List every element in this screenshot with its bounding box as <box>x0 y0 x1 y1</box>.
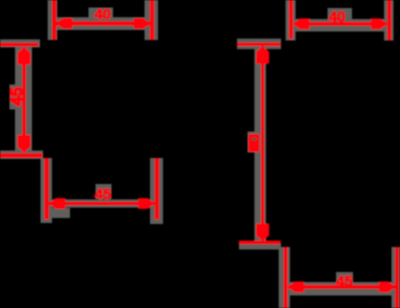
middle dim upper extension line <box>237 43 281 46</box>
ghost of label 45 bottom-right <box>336 272 353 289</box>
left dim upper extension line <box>0 43 38 47</box>
svg-text:45: 45 <box>95 186 112 203</box>
ghost of label 40 top-left <box>89 8 114 22</box>
top-right dimension line <box>294 22 387 26</box>
ghost of bottom-left dimension line <box>49 199 155 207</box>
middle dim lower extension line <box>239 241 281 245</box>
top-left left arrowhead <box>56 18 73 29</box>
ghost of left dimension line <box>15 42 32 156</box>
bottom-left dim extension line 2 <box>155 158 159 220</box>
top-left dim extension line 2 <box>150 0 154 40</box>
middle dimension line <box>261 46 264 241</box>
bottom-left right arrowhead <box>138 198 155 209</box>
ghost of bottom-right dimension line <box>288 282 397 296</box>
ghost of label 80 middle <box>248 132 260 153</box>
bottom-right right arrowhead <box>379 282 396 293</box>
label 80 zero counter hole <box>252 137 257 140</box>
top-right left arrowhead <box>293 18 310 29</box>
ghost of middle dim lower extension line <box>239 244 281 250</box>
bottom-left left arrowhead <box>49 198 66 209</box>
top-left dim extension line 1 <box>52 0 56 40</box>
ghost of top-right extension line 2 <box>384 0 394 41</box>
ghost of top-right dimension line <box>286 19 393 32</box>
bottom-right dim extension line 1 <box>284 247 288 308</box>
svg-text:40: 40 <box>94 6 111 23</box>
bottom-left dimension line <box>49 202 155 206</box>
top-right dim extension line 2 <box>387 0 391 40</box>
left dimension line <box>22 47 26 152</box>
top-left right arrowhead <box>134 18 151 29</box>
ghost of bottom-right extension line 2 <box>392 247 400 308</box>
ghost of label 45 left <box>10 85 22 110</box>
ghost of left dim upper extension line <box>0 39 40 47</box>
ghost of top-left dimension line <box>48 17 158 30</box>
bottom-right left arrowhead <box>288 282 305 293</box>
ghost of bottom-left extension line 1 <box>41 158 53 223</box>
svg-text:45: 45 <box>336 273 353 290</box>
ghost of top-right extension line 1 <box>286 0 296 41</box>
top-right right arrowhead <box>371 18 388 29</box>
ghost blob below bottom-left left arrowhead <box>48 208 70 218</box>
ghost of left dim lower extension line <box>0 151 43 160</box>
ghost of bottom-right extension line 1 <box>279 247 290 308</box>
ghost of top-left extension line 1 <box>48 0 58 40</box>
ghost of label 45 bottom-left <box>96 184 112 199</box>
svg-text:45: 45 <box>7 87 26 106</box>
middle dim up arrowhead <box>256 46 269 64</box>
ghost of middle dim upper extension line <box>237 39 281 50</box>
ghost of middle dimension line <box>254 45 266 243</box>
ghost of top-left extension line 2 <box>145 0 159 40</box>
bottom-right dimension line <box>288 285 395 289</box>
ghost of label 40 top-right <box>328 8 353 24</box>
left dim up arrowhead <box>18 47 31 65</box>
svg-text:40: 40 <box>329 9 346 26</box>
label 80 solid blob overlay <box>248 134 259 152</box>
middle dim down arrowhead <box>256 224 269 242</box>
bottom-left dim extension line 1 <box>44 158 48 220</box>
ghost of bottom-left extension line 2 <box>150 158 163 224</box>
bottom-right dim extension line 2 <box>395 247 399 308</box>
top-right dim extension line 1 <box>289 0 293 39</box>
top-left dimension line <box>57 21 150 25</box>
left dim down arrowhead <box>18 135 31 153</box>
left dim lower extension line <box>0 153 43 157</box>
